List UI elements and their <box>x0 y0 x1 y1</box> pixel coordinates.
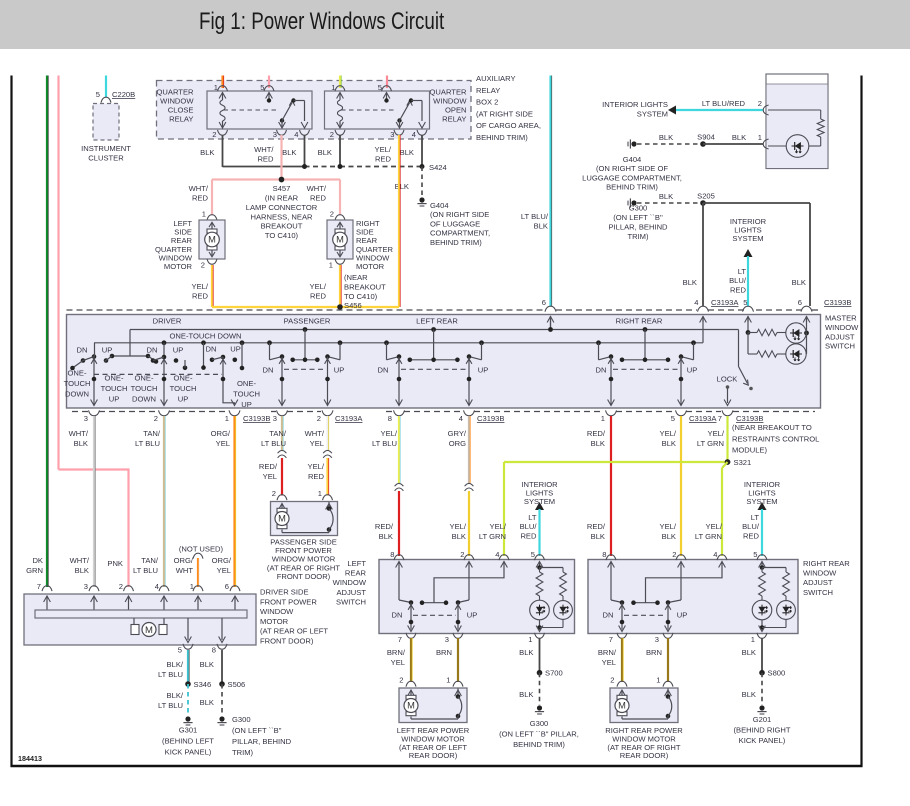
svg-text:DOWN: DOWN <box>132 395 156 404</box>
svg-text:BLK: BLK <box>395 182 409 191</box>
svg-text:PNK: PNK <box>107 559 123 568</box>
svg-text:LOCK: LOCK <box>717 375 738 384</box>
svg-text:8: 8 <box>212 646 216 655</box>
svg-text:BLK: BLK <box>75 566 89 575</box>
svg-text:4: 4 <box>495 550 499 559</box>
svg-text:5: 5 <box>753 550 757 559</box>
svg-text:RELAY: RELAY <box>442 115 466 124</box>
svg-text:YEL/: YEL/ <box>310 282 327 291</box>
svg-text:WINDOW: WINDOW <box>433 97 467 106</box>
svg-text:LT: LT <box>528 513 537 522</box>
svg-text:WINDOW: WINDOW <box>160 97 194 106</box>
svg-text:QUARTER: QUARTER <box>157 88 195 97</box>
svg-text:MOTOR: MOTOR <box>164 262 193 271</box>
svg-text:ADJUST: ADJUST <box>336 588 366 597</box>
svg-text:BLK/: BLK/ <box>167 691 184 700</box>
svg-text:GRN: GRN <box>26 566 43 575</box>
svg-text:DRIVER: DRIVER <box>153 317 182 326</box>
svg-text:1: 1 <box>758 133 762 142</box>
svg-text:WINDOW: WINDOW <box>333 578 367 587</box>
svg-text:BLK: BLK <box>452 532 466 541</box>
svg-text:C3193A: C3193A <box>335 414 363 423</box>
svg-text:BRN/: BRN/ <box>598 648 617 657</box>
svg-text:6: 6 <box>542 298 546 307</box>
svg-text:(AT REAR OF LEFT: (AT REAR OF LEFT <box>260 627 328 636</box>
svg-text:BLK: BLK <box>591 532 605 541</box>
svg-text:YEL: YEL <box>217 566 231 575</box>
svg-text:3: 3 <box>84 414 88 423</box>
svg-text:KICK PANEL): KICK PANEL) <box>739 736 786 745</box>
svg-text:FRONT POWER: FRONT POWER <box>260 597 317 606</box>
svg-text:YEL/: YEL/ <box>450 522 467 531</box>
svg-text:BRN/: BRN/ <box>387 648 406 657</box>
svg-text:1: 1 <box>446 676 450 685</box>
svg-text:YEL/: YEL/ <box>381 429 398 438</box>
svg-text:LUGGAGE COMPARTMENT,: LUGGAGE COMPARTMENT, <box>582 173 682 182</box>
svg-text:4: 4 <box>713 550 717 559</box>
svg-text:TOUCH: TOUCH <box>64 379 91 388</box>
svg-text:3: 3 <box>390 130 394 139</box>
svg-text:2: 2 <box>201 261 205 270</box>
svg-text:S346: S346 <box>194 680 212 689</box>
svg-text:LT BLU/RED: LT BLU/RED <box>702 99 746 108</box>
svg-text:ONE-: ONE- <box>135 374 154 383</box>
svg-text:5: 5 <box>96 90 100 99</box>
svg-text:ONE-: ONE- <box>68 369 87 378</box>
svg-text:2: 2 <box>460 550 464 559</box>
svg-text:ONE-TOUCH DOWN: ONE-TOUCH DOWN <box>170 332 242 341</box>
svg-text:(ON LEFT ``B" PILLAR,: (ON LEFT ``B" PILLAR, <box>499 729 579 738</box>
svg-text:YEL/: YEL/ <box>706 522 723 531</box>
svg-text:C3193B: C3193B <box>824 298 851 307</box>
svg-text:ORG/: ORG/ <box>212 556 232 565</box>
svg-text:7: 7 <box>398 635 402 644</box>
svg-text:ORG: ORG <box>449 439 466 448</box>
svg-text:3: 3 <box>273 414 277 423</box>
svg-text:LEFT REAR: LEFT REAR <box>416 317 458 326</box>
svg-text:DN: DN <box>77 346 88 355</box>
svg-text:DRIVER SIDE: DRIVER SIDE <box>260 588 309 597</box>
svg-text:YEL: YEL <box>263 472 277 481</box>
svg-text:5: 5 <box>531 550 535 559</box>
svg-text:INSTRUMENT: INSTRUMENT <box>81 144 131 153</box>
svg-text:3: 3 <box>273 130 277 139</box>
svg-text:RED: RED <box>730 285 747 294</box>
svg-text:WHT/: WHT/ <box>189 184 209 193</box>
svg-text:2: 2 <box>154 414 158 423</box>
svg-text:BEHIND TRIM): BEHIND TRIM) <box>513 740 565 749</box>
svg-text:1: 1 <box>202 210 206 219</box>
svg-text:DN: DN <box>263 366 274 375</box>
svg-text:SWITCH: SWITCH <box>825 342 855 351</box>
svg-text:YEL: YEL <box>216 439 230 448</box>
svg-text:TRIM): TRIM) <box>232 748 254 757</box>
svg-text:UP: UP <box>109 395 120 404</box>
svg-text:M: M <box>208 235 216 245</box>
svg-text:7: 7 <box>718 414 722 423</box>
svg-text:REAR: REAR <box>345 569 367 578</box>
svg-text:C3193B: C3193B <box>477 414 504 423</box>
svg-text:ONE-: ONE- <box>237 379 256 388</box>
svg-text:RELAY: RELAY <box>169 115 193 124</box>
svg-text:LT BLU: LT BLU <box>158 670 183 679</box>
svg-text:LT GRN: LT GRN <box>697 439 724 448</box>
svg-text:ONE-: ONE- <box>105 374 124 383</box>
svg-text:2: 2 <box>272 489 276 498</box>
svg-text:(ON RIGHT SIDE: (ON RIGHT SIDE <box>430 210 489 219</box>
svg-text:BOX 2: BOX 2 <box>476 98 498 107</box>
svg-text:G404: G404 <box>430 201 449 210</box>
svg-text:(ON RIGHT SIDE OF: (ON RIGHT SIDE OF <box>596 164 668 173</box>
svg-text:8: 8 <box>388 414 392 423</box>
svg-text:2: 2 <box>330 210 334 219</box>
svg-text:5: 5 <box>671 414 675 423</box>
svg-text:3: 3 <box>84 582 88 591</box>
svg-text:1: 1 <box>751 635 755 644</box>
svg-text:G300: G300 <box>530 719 549 728</box>
svg-text:BLK: BLK <box>74 439 88 448</box>
svg-text:2: 2 <box>317 414 321 423</box>
svg-text:UP: UP <box>478 366 489 375</box>
svg-text:1: 1 <box>601 414 605 423</box>
svg-text:DK: DK <box>32 556 43 565</box>
svg-text:FRONT DOOR): FRONT DOOR) <box>260 637 314 646</box>
svg-text:S800: S800 <box>768 669 786 678</box>
svg-text:1: 1 <box>329 261 333 270</box>
svg-text:ORG/: ORG/ <box>174 556 194 565</box>
svg-text:LT GRN: LT GRN <box>479 532 506 541</box>
svg-text:C220B: C220B <box>112 90 135 99</box>
svg-text:YEL/: YEL/ <box>375 145 392 154</box>
svg-text:RED/: RED/ <box>375 522 394 531</box>
svg-text:2: 2 <box>330 130 334 139</box>
svg-text:S700: S700 <box>545 669 563 678</box>
svg-text:S205: S205 <box>697 192 715 201</box>
svg-text:ADJUST: ADJUST <box>803 578 833 587</box>
svg-text:BLK: BLK <box>742 690 756 699</box>
svg-text:TOUCH: TOUCH <box>131 384 158 393</box>
svg-text:BEHIND TRIM): BEHIND TRIM) <box>476 133 528 142</box>
svg-text:RED: RED <box>310 193 327 202</box>
svg-text:LT GRN: LT GRN <box>695 532 722 541</box>
svg-text:YEL: YEL <box>310 439 324 448</box>
svg-text:1: 1 <box>656 676 660 685</box>
svg-text:BLK: BLK <box>519 690 533 699</box>
svg-text:BLK: BLK <box>282 148 296 157</box>
svg-text:MOTOR: MOTOR <box>260 617 289 626</box>
svg-text:BLK: BLK <box>732 133 746 142</box>
svg-text:8: 8 <box>602 550 606 559</box>
svg-text:MASTER: MASTER <box>825 314 857 323</box>
svg-text:WINDOW: WINDOW <box>260 607 294 616</box>
svg-text:LT BLU: LT BLU <box>372 439 397 448</box>
svg-text:QUARTER: QUARTER <box>430 88 468 97</box>
svg-text:M: M <box>145 625 153 636</box>
svg-text:S424: S424 <box>429 163 447 172</box>
svg-text:BREAKOUT: BREAKOUT <box>261 222 303 231</box>
svg-text:TOUCH: TOUCH <box>233 390 260 399</box>
svg-text:2: 2 <box>119 582 123 591</box>
svg-text:C3193B: C3193B <box>243 414 270 423</box>
svg-text:(ON LEFT ``B": (ON LEFT ``B" <box>232 726 282 735</box>
svg-text:BLK: BLK <box>200 698 214 707</box>
svg-text:G404: G404 <box>623 155 642 164</box>
svg-text:RESTRAINTS CONTROL: RESTRAINTS CONTROL <box>732 434 819 443</box>
svg-text:BLK/: BLK/ <box>167 660 184 669</box>
svg-text:HARNESS, NEAR: HARNESS, NEAR <box>250 212 313 221</box>
svg-text:UP: UP <box>334 366 345 375</box>
svg-text:MOTOR: MOTOR <box>356 262 385 271</box>
svg-text:BLK: BLK <box>400 148 414 157</box>
svg-text:TAN/: TAN/ <box>141 556 159 565</box>
svg-text:1: 1 <box>225 414 229 423</box>
svg-text:BLU/: BLU/ <box>520 522 538 531</box>
svg-text:BLU/: BLU/ <box>742 522 760 531</box>
svg-text:BLK: BLK <box>742 648 756 657</box>
svg-text:(AT RIGHT SIDE: (AT RIGHT SIDE <box>476 109 533 118</box>
svg-text:AUXILIARY: AUXILIARY <box>476 74 516 83</box>
svg-text:2: 2 <box>610 676 614 685</box>
svg-text:TOUCH: TOUCH <box>101 384 128 393</box>
svg-text:5: 5 <box>743 298 747 307</box>
svg-text:S321: S321 <box>734 458 752 467</box>
svg-text:7: 7 <box>37 582 41 591</box>
svg-text:DN: DN <box>392 611 403 620</box>
svg-text:(IN REAR: (IN REAR <box>265 194 299 203</box>
svg-text:LAMP CONNECTOR: LAMP CONNECTOR <box>246 203 318 212</box>
svg-text:C3193B: C3193B <box>736 414 763 423</box>
svg-text:DN: DN <box>206 345 217 354</box>
svg-text:UP: UP <box>102 346 113 355</box>
svg-text:YEL/: YEL/ <box>708 429 725 438</box>
svg-text:ADJUST: ADJUST <box>825 332 855 341</box>
svg-text:FRONT DOOR): FRONT DOOR) <box>277 572 331 581</box>
svg-text:G201: G201 <box>753 715 772 724</box>
svg-text:WHT/: WHT/ <box>305 429 325 438</box>
svg-text:REAR DOOR): REAR DOOR) <box>620 751 669 760</box>
svg-text:CLOSE: CLOSE <box>168 106 194 115</box>
svg-text:(NOT USED): (NOT USED) <box>179 545 224 554</box>
svg-text:RED: RED <box>192 193 209 202</box>
svg-text:3: 3 <box>445 635 449 644</box>
svg-text:WHT/: WHT/ <box>70 556 90 565</box>
svg-text:LT BLU: LT BLU <box>135 439 160 448</box>
svg-text:6: 6 <box>225 582 229 591</box>
svg-text:1: 1 <box>528 635 532 644</box>
svg-text:YEL: YEL <box>391 658 405 667</box>
svg-text:S457: S457 <box>273 184 291 193</box>
svg-text:YEL/: YEL/ <box>192 282 209 291</box>
svg-text:RED/: RED/ <box>587 522 606 531</box>
svg-text:M: M <box>407 701 415 711</box>
svg-text:M: M <box>336 235 344 245</box>
svg-text:S904: S904 <box>697 133 715 142</box>
svg-text:C3193A: C3193A <box>711 298 739 307</box>
svg-text:DN: DN <box>378 366 389 375</box>
svg-text:TAN/: TAN/ <box>143 429 161 438</box>
svg-text:BLK: BLK <box>591 439 605 448</box>
svg-text:RED: RED <box>743 531 760 540</box>
svg-text:BLK: BLK <box>200 148 214 157</box>
svg-text:WHT/: WHT/ <box>69 429 89 438</box>
svg-text:YEL/: YEL/ <box>660 522 677 531</box>
svg-text:REAR DOOR): REAR DOOR) <box>409 751 458 760</box>
svg-text:BREAKOUT: BREAKOUT <box>344 282 386 291</box>
svg-text:LT BLU: LT BLU <box>133 566 158 575</box>
svg-text:G301: G301 <box>179 726 198 735</box>
svg-text:BLK: BLK <box>200 660 214 669</box>
svg-text:DN: DN <box>603 611 614 620</box>
svg-text:C3193A: C3193A <box>689 414 717 423</box>
svg-text:RIGHT REAR: RIGHT REAR <box>616 317 663 326</box>
svg-text:MODULE): MODULE) <box>732 446 767 455</box>
svg-text:LT BLU: LT BLU <box>261 439 286 448</box>
svg-text:TO C410): TO C410) <box>265 231 299 240</box>
svg-text:UP: UP <box>467 611 478 620</box>
svg-text:LT: LT <box>738 267 747 276</box>
svg-text:PILLAR, BEHIND: PILLAR, BEHIND <box>608 223 668 232</box>
svg-text:DN: DN <box>596 366 607 375</box>
svg-text:RED: RED <box>308 472 325 481</box>
svg-text:TRIM): TRIM) <box>627 232 649 241</box>
svg-text:RED: RED <box>310 291 327 300</box>
svg-text:184413: 184413 <box>18 754 42 763</box>
svg-text:WINDOW: WINDOW <box>825 323 859 332</box>
svg-text:INTERIOR LIGHTS: INTERIOR LIGHTS <box>602 100 668 109</box>
svg-text:KICK PANEL): KICK PANEL) <box>165 748 212 757</box>
svg-text:BLK: BLK <box>519 648 533 657</box>
svg-text:RED/: RED/ <box>587 429 606 438</box>
svg-text:2: 2 <box>399 676 403 685</box>
svg-text:UP: UP <box>241 400 252 409</box>
svg-text:YEL/: YEL/ <box>490 522 507 531</box>
svg-text:2: 2 <box>212 130 216 139</box>
svg-text:4: 4 <box>412 130 416 139</box>
svg-text:(NEAR BREAKOUT TO: (NEAR BREAKOUT TO <box>732 423 812 432</box>
svg-text:M: M <box>618 701 626 711</box>
svg-text:UP: UP <box>178 395 189 404</box>
svg-text:YEL/: YEL/ <box>308 462 325 471</box>
svg-text:4: 4 <box>459 414 463 423</box>
svg-text:ORG/: ORG/ <box>211 429 231 438</box>
svg-text:5: 5 <box>178 646 182 655</box>
svg-text:OF CARGO AREA,: OF CARGO AREA, <box>476 121 541 130</box>
svg-text:(BEHIND LEFT: (BEHIND LEFT <box>162 737 214 746</box>
svg-text:BLK: BLK <box>318 148 332 157</box>
svg-text:2: 2 <box>672 550 676 559</box>
svg-text:2: 2 <box>758 99 762 108</box>
svg-text:UP: UP <box>677 611 688 620</box>
svg-text:WINDOW: WINDOW <box>803 569 837 578</box>
svg-text:TO C410): TO C410) <box>344 292 378 301</box>
svg-text:YEL: YEL <box>602 658 616 667</box>
svg-text:WHT/: WHT/ <box>254 145 274 154</box>
svg-text:G300: G300 <box>232 715 251 724</box>
svg-text:LT BLU/: LT BLU/ <box>521 212 549 221</box>
svg-text:RED: RED <box>375 154 392 163</box>
svg-text:BRN: BRN <box>646 648 662 657</box>
svg-text:RED/: RED/ <box>259 462 278 471</box>
svg-text:DOWN: DOWN <box>65 390 89 399</box>
svg-text:G300: G300 <box>629 204 648 213</box>
svg-text:BLK: BLK <box>683 278 697 287</box>
svg-text:BLK: BLK <box>659 192 673 201</box>
svg-text:(NEAR: (NEAR <box>344 273 368 282</box>
svg-text:WHT/: WHT/ <box>307 184 327 193</box>
svg-text:PASSENGER: PASSENGER <box>284 317 331 326</box>
svg-text:4: 4 <box>694 298 698 307</box>
svg-text:YEL/: YEL/ <box>660 429 677 438</box>
svg-text:PILLAR, BEHIND: PILLAR, BEHIND <box>232 737 292 746</box>
svg-text:UP: UP <box>230 345 241 354</box>
svg-text:UP: UP <box>173 346 184 355</box>
svg-text:RED: RED <box>257 154 274 163</box>
svg-text:LT: LT <box>751 513 760 522</box>
svg-text:TAN/: TAN/ <box>269 429 287 438</box>
svg-text:BLK: BLK <box>662 532 676 541</box>
svg-text:RED: RED <box>520 531 537 540</box>
svg-text:RELAY: RELAY <box>476 86 500 95</box>
svg-text:LEFT: LEFT <box>347 559 366 568</box>
svg-text:6: 6 <box>798 298 802 307</box>
svg-text:SWITCH: SWITCH <box>803 588 833 597</box>
svg-text:BEHIND TRIM): BEHIND TRIM) <box>430 238 482 247</box>
svg-text:(ON LEFT ``B'': (ON LEFT ``B'' <box>613 213 663 222</box>
svg-text:BEHIND TRIM): BEHIND TRIM) <box>606 183 658 192</box>
svg-text:BLK: BLK <box>534 221 548 230</box>
svg-text:SYSTEM: SYSTEM <box>637 110 668 119</box>
svg-text:BLK: BLK <box>659 133 673 142</box>
svg-text:UP: UP <box>687 366 698 375</box>
svg-text:4: 4 <box>294 130 298 139</box>
svg-text:BLU/: BLU/ <box>729 276 747 285</box>
svg-text:LT BLU: LT BLU <box>158 701 183 710</box>
svg-text:GRY/: GRY/ <box>448 429 467 438</box>
svg-text:COMPARTMENT,: COMPARTMENT, <box>430 229 490 238</box>
svg-text:(BEHIND RIGHT: (BEHIND RIGHT <box>734 725 791 734</box>
svg-text:BLK: BLK <box>662 439 676 448</box>
svg-text:BLK: BLK <box>792 278 806 287</box>
svg-text:S506: S506 <box>228 680 246 689</box>
svg-text:DN: DN <box>147 346 158 355</box>
svg-text:BLK: BLK <box>379 532 393 541</box>
svg-text:OPEN: OPEN <box>445 106 467 115</box>
svg-text:TOUCH: TOUCH <box>170 384 197 393</box>
svg-text:ONE-: ONE- <box>174 374 193 383</box>
svg-text:RED: RED <box>192 291 209 300</box>
svg-text:1: 1 <box>318 489 322 498</box>
svg-text:BRN: BRN <box>436 648 452 657</box>
svg-text:WHT: WHT <box>176 566 194 575</box>
svg-text:RIGHT REAR: RIGHT REAR <box>803 559 850 568</box>
svg-text:8: 8 <box>390 550 394 559</box>
svg-text:S456: S456 <box>344 301 362 310</box>
svg-text:3: 3 <box>655 635 659 644</box>
svg-text:M: M <box>278 514 286 524</box>
svg-text:4: 4 <box>155 582 159 591</box>
svg-text:OF LUGGAGE: OF LUGGAGE <box>430 219 480 228</box>
svg-text:SWITCH: SWITCH <box>336 597 366 606</box>
svg-text:SYSTEM: SYSTEM <box>732 234 763 243</box>
svg-text:7: 7 <box>609 635 613 644</box>
svg-text:CLUSTER: CLUSTER <box>88 153 124 162</box>
